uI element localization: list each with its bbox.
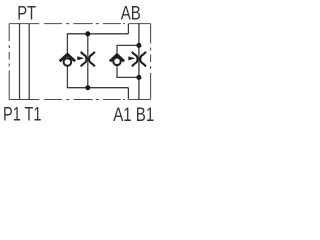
svg-text:AB: AB [121, 4, 141, 25]
svg-text:PT: PT [17, 3, 36, 24]
wire valve1 top bus [67, 33, 129, 35]
check valve V2 seat [110, 55, 124, 62]
throttle RD1 arrow [77, 56, 84, 60]
junction node valve2 top [136, 43, 141, 48]
wire valve2 top bus [116, 44, 138, 46]
svg-text:A1 B1: A1 B1 [113, 105, 154, 126]
svg-text:P1 T1: P1 T1 [3, 105, 42, 126]
wire valve1 check branch [66, 34, 68, 88]
throttle RD1 arcs [81, 52, 95, 66]
wire valve1 throttle branch [87, 34, 89, 88]
frame top edge (dash-dot plate boundary) [9, 23, 150, 25]
wire port line B [138, 24, 140, 100]
wire port line P [19, 24, 21, 100]
wire port A drop [127, 24, 129, 34]
junction node valve1 top [85, 31, 90, 36]
frame left edge (dash-dot plate boundary) [8, 24, 10, 100]
frame bottom edge (dash-dot plate boundary) [9, 99, 150, 101]
wire valve1 bottom bus [67, 87, 129, 89]
throttle RD2 arcs [132, 52, 146, 66]
wire valve2 bottom bus [116, 76, 138, 78]
throttle RD2 arrow [128, 56, 135, 60]
frame right edge (dash-dot plate boundary) [150, 24, 152, 100]
check valve V1 ball [64, 58, 72, 66]
wire port A1 drop [127, 88, 129, 100]
check valve V1 seat [60, 54, 75, 61]
wire valve2 check branch [116, 45, 118, 77]
junction node valve1 bottom [85, 85, 90, 90]
junction node valve2 bottom [136, 75, 141, 80]
wire port line T [28, 24, 30, 100]
check valve V2 ball [113, 58, 121, 66]
